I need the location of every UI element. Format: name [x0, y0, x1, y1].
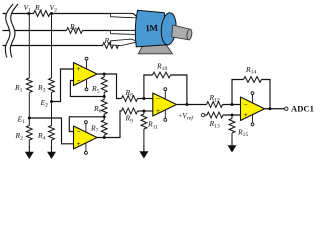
wire: U1 output — [97, 74, 122, 99]
svg-text:ADC1: ADC1 — [291, 104, 314, 114]
node E2 and wire to op-amp U1 + input — [52, 69, 74, 102]
resistor R4 — [49, 126, 55, 141]
ground under R15 — [231, 140, 233, 147]
node A — [103, 95, 106, 98]
op-amp U1 — [74, 57, 98, 91]
resistor Ra — [34, 11, 51, 17]
motor base — [138, 45, 172, 54]
svg-text:−: − — [156, 96, 160, 103]
terminal: ADC1 — [285, 107, 288, 110]
svg-text:+: + — [244, 112, 248, 119]
wire: U1 feedback from node A to - input — [70, 81, 104, 97]
node V2 — [50, 12, 53, 15]
svg-text:+: + — [77, 66, 81, 73]
svg-text:−: − — [244, 102, 248, 109]
ground under R11 — [143, 146, 145, 153]
node: U3 + input — [142, 110, 145, 113]
resistor R7 — [101, 120, 107, 135]
wire: node B to U2 - input — [69, 117, 104, 132]
node B — [103, 115, 106, 118]
svg-text:IM: IM — [146, 23, 159, 34]
node E1 and wire to op-amp U2 + input — [29, 118, 73, 144]
op-amp U2 — [74, 121, 98, 155]
wire: phase line 3 — [3, 41, 138, 45]
node: U3 out / R14 tap — [185, 103, 188, 106]
op-amp U4 — [241, 92, 265, 126]
ground under R2 — [28, 146, 30, 153]
wire: phase line 2 — [3, 30, 137, 32]
resistor R15 to ground — [231, 115, 233, 119]
resistor R2 — [26, 126, 32, 141]
resistor R10 feedback loop — [144, 75, 153, 99]
resistor Rb — [67, 28, 83, 34]
node: U2 output junction — [103, 136, 106, 139]
resistor R3 — [49, 78, 55, 93]
resistor R9 — [122, 108, 138, 114]
wire: phase line 1 — [3, 14, 139, 18]
motor body — [135, 10, 167, 47]
resistor R12 — [207, 102, 223, 108]
ground under R4 — [51, 146, 53, 153]
svg-text:+: + — [77, 141, 81, 148]
wire: U4 output to ADC1 — [265, 108, 285, 110]
break symbol (supply cable torn marks) — [5, 4, 18, 58]
cable wedge 3 — [111, 39, 139, 45]
resistor R6 — [101, 100, 107, 115]
induction motor IM — [135, 10, 192, 54]
motor end cap — [160, 12, 177, 45]
motor shaft — [172, 25, 190, 40]
resistor Rc — [103, 43, 119, 49]
node: U4 - input — [231, 103, 234, 106]
resistor R1 — [26, 78, 32, 93]
wire: U2 output — [97, 111, 122, 138]
node: U4 + input — [231, 114, 234, 117]
wire: U3 output — [177, 104, 207, 106]
cable wedge 2 — [111, 31, 138, 35]
wire: rail from V1 down — [28, 14, 30, 147]
svg-text:−: − — [77, 78, 81, 85]
svg-text:+: + — [156, 108, 160, 115]
resistor R14 feedback loop — [232, 80, 244, 105]
node: U4 out junction — [269, 107, 272, 110]
op-amp U3 — [153, 88, 177, 122]
wire: rail from V2 down — [51, 14, 53, 147]
node: U3 - input — [142, 97, 145, 100]
resistor R8 — [122, 96, 138, 102]
node: U1 output junction — [103, 73, 106, 76]
resistor R5 — [103, 74, 105, 100]
resistor R13 — [207, 112, 223, 118]
node V1 — [27, 12, 30, 15]
svg-text:−: − — [77, 129, 81, 136]
resistor R11 to ground — [143, 111, 145, 114]
cable wedge 1 — [111, 14, 139, 19]
+Vref terminal — [201, 113, 204, 116]
